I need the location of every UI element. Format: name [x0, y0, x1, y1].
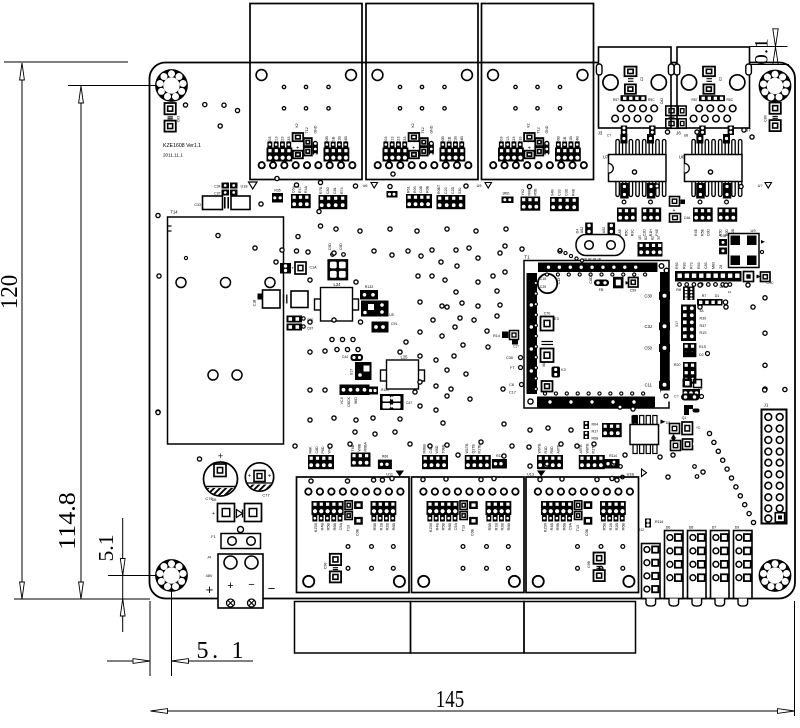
svg-text:D8: D8 — [689, 526, 694, 530]
svg-text:KZE1608 Ver1.1: KZE1608 Ver1.1 — [163, 143, 201, 149]
capacitor C29 inside QFP — [538, 274, 557, 293]
svg-text:R03: R03 — [413, 186, 417, 193]
capacitor C9B — [587, 553, 605, 582]
svg-text:R6B: R6B — [507, 523, 511, 531]
IC U5 — [361, 301, 389, 317]
svg-text:R14: R14 — [493, 334, 500, 338]
svg-text:R132: R132 — [365, 285, 374, 289]
svg-text:C9A: C9A — [339, 523, 343, 531]
svg-text:T13: T13 — [462, 525, 466, 531]
cluster group F — [579, 455, 605, 469]
svg-text:R5B: R5B — [442, 523, 446, 531]
resistor network R5 tall — [681, 305, 696, 342]
dimension 120 extension line top — [4, 61, 128, 63]
via diagonal chain bottom right — [707, 431, 755, 524]
dimension 5.1 horizontal line left — [107, 660, 150, 662]
svg-text:K2: K2 — [295, 123, 299, 127]
cluster near R61 — [521, 197, 541, 211]
svg-text:+: + — [268, 474, 272, 480]
svg-text:FB: FB — [599, 288, 604, 292]
RJ45 connector bottom block 3 — [526, 477, 639, 593]
resistor network R16 — [638, 242, 663, 257]
svg-text:R114: R114 — [609, 454, 617, 458]
D4 pad pair left — [585, 223, 593, 235]
resistor R114 — [605, 459, 620, 469]
svg-text:C37: C37 — [214, 192, 220, 196]
svg-text:P4E: P4E — [655, 228, 659, 235]
QFP corner pad bottom-left — [528, 399, 533, 404]
dimension 5.1 horizontal extension line board edge — [149, 601, 151, 676]
capacitor C44 — [351, 354, 364, 361]
svg-text:R93: R93 — [675, 262, 679, 269]
dimension 5.1 horizontal extension line hole center — [171, 576, 173, 677]
svg-text:C33: C33 — [194, 203, 201, 207]
svg-text:S4B: S4B — [551, 189, 555, 196]
svg-text:R0BA: R0BA — [364, 442, 368, 452]
svg-text:J3: J3 — [598, 131, 603, 136]
svg-text:+C: +C — [696, 426, 701, 430]
svg-text:R4B: R4B — [435, 523, 439, 531]
svg-text:C50: C50 — [644, 345, 652, 350]
cluster C6a R47 — [291, 194, 311, 208]
svg-text:R57: R57 — [691, 98, 697, 102]
svg-text:R63: R63 — [697, 262, 701, 269]
capacitor group bottom right of QFP — [672, 419, 675, 422]
resistor R61 pads — [502, 197, 514, 204]
QFP right pads C30 C3J C50 C11 — [644, 292, 670, 300]
svg-text:KZ00: KZ00 — [429, 523, 433, 532]
svg-text:GND: GND — [545, 125, 549, 133]
svg-text:R6B: R6B — [621, 523, 625, 531]
svg-text:R5B: R5B — [488, 523, 492, 531]
svg-text:U6: U6 — [363, 184, 368, 188]
svg-text:C4B: C4B — [720, 234, 726, 238]
svg-text:C44: C44 — [342, 355, 348, 359]
RJ45 connector J2 (top block 1) — [250, 4, 362, 180]
svg-text:C83: C83 — [704, 262, 708, 269]
svg-text:C23: C23 — [444, 187, 448, 194]
svg-text:2R 3R 1R 1R: 2R 3R 1R 1R — [583, 257, 602, 261]
svg-text:C11: C11 — [645, 382, 653, 387]
svg-text:C0B: C0B — [471, 528, 475, 536]
dimension 0.1 arrow upper — [773, 29, 778, 47]
svg-text:C?: C? — [674, 395, 678, 399]
svg-text:R20: R20 — [674, 363, 681, 367]
resistor labels R04 R17 R56 — [584, 421, 590, 429]
svg-text:C80: C80 — [764, 115, 768, 121]
svg-text:L25: L25 — [401, 355, 409, 360]
PCB board outline — [150, 63, 796, 599]
dimension 0.1 arrow lower — [773, 47, 778, 65]
cluster group D — [465, 455, 491, 469]
cluster group B — [351, 453, 371, 467]
QFP corner pad top-right — [659, 264, 664, 269]
svg-text:R5C: R5C — [624, 229, 628, 237]
svg-text:U7: U7 — [603, 155, 609, 160]
port mounting slot 2 — [668, 64, 674, 75]
port mounting slot 1 — [596, 64, 602, 75]
svg-text:R7B: R7B — [319, 186, 323, 194]
svg-text:C6a: C6a — [292, 186, 296, 193]
cluster group E — [537, 455, 563, 469]
capacitor C4A pads — [670, 197, 680, 207]
connector tab 4 — [715, 599, 725, 607]
resistor cluster below U6 right — [718, 208, 738, 222]
svg-text:M83: M83 — [712, 262, 716, 269]
svg-text:W1TB: W1TB — [465, 443, 469, 454]
svg-text:R61: R61 — [407, 186, 411, 193]
svg-text:R2B: R2B — [386, 523, 390, 531]
svg-text:C30: C30 — [506, 356, 513, 360]
svg-text:C1B: C1B — [253, 299, 257, 306]
svg-text:Q1TB: Q1TB — [471, 444, 475, 454]
svg-text:KZ00: KZ00 — [544, 523, 548, 532]
dimension 5.1 horizontal arrow right — [172, 659, 189, 664]
svg-text:R1B: R1B — [494, 523, 498, 531]
svg-text:U6: U6 — [679, 155, 685, 160]
QFP corner pad bottom-right white square — [661, 391, 671, 402]
svg-text:R0B: R0B — [425, 185, 429, 193]
svg-text:C2: C2 — [719, 77, 723, 81]
svg-text:C0B: C0B — [356, 528, 360, 536]
svg-text:R58: R58 — [592, 437, 599, 441]
svg-text:C15: C15 — [540, 277, 546, 281]
resistor R132 — [360, 290, 378, 300]
capacitor C5 capsule — [681, 394, 700, 401]
T14 hole 2 — [221, 278, 231, 288]
svg-text:1R61: 1R61 — [502, 192, 510, 196]
svg-text:W6TB: W6TB — [538, 443, 542, 454]
svg-text:C7: C7 — [607, 134, 611, 138]
svg-text:T12: T12 — [305, 127, 309, 133]
svg-text:U18: U18 — [241, 185, 248, 189]
svg-text:1G: 1G — [638, 235, 642, 240]
svg-text:C5D: C5D — [328, 243, 332, 250]
svg-text:R5C: R5C — [648, 98, 655, 102]
svg-text:R06: R06 — [527, 189, 531, 196]
svg-text:R4B: R4B — [320, 523, 324, 531]
svg-text:R4A: R4A — [304, 185, 308, 193]
capacitor C4x cluster — [380, 394, 404, 410]
QFP pin bar top — [538, 263, 658, 273]
svg-text:R4B: R4B — [572, 188, 576, 196]
capacitor C80 pads — [764, 103, 781, 132]
diode header D6 — [665, 531, 684, 599]
svg-text:R6B: R6B — [333, 523, 337, 531]
QFP pin bar bottom — [537, 397, 655, 408]
svg-text:C47: C47 — [406, 401, 412, 405]
svg-text:+: + — [248, 474, 252, 480]
IC U7 (SOIC16) — [603, 134, 666, 204]
dimension 114.8 extension line — [68, 85, 166, 87]
D4 hole 1 — [585, 241, 594, 250]
QFP via row top — [545, 273, 646, 276]
svg-text:C17: C17 — [509, 391, 516, 395]
cluster C16 — [602, 423, 622, 437]
mounting hole top-right — [759, 70, 792, 103]
mounting hole top-left — [155, 69, 188, 102]
resistor row R7 D1 — [697, 299, 723, 306]
pad at header right end — [744, 272, 754, 282]
D4 hole 2 — [607, 241, 616, 250]
svg-text:A52: A52 — [580, 227, 584, 233]
resistor R119 — [492, 459, 507, 469]
svg-text:R120: R120 — [381, 388, 389, 392]
svg-text:R74: R74 — [340, 187, 344, 194]
T14 hole 3 — [265, 278, 275, 288]
svg-text:R0BB: R0BB — [423, 444, 427, 454]
svg-text:C91: C91 — [391, 322, 397, 326]
T14 hole 1 — [176, 278, 186, 288]
RJ45 connector bottom block 1 — [297, 477, 410, 593]
svg-text:R37: R37 — [700, 324, 707, 328]
svg-text:C0B: C0B — [419, 185, 423, 193]
svg-text:KZ00: KZ00 — [314, 523, 318, 532]
svg-text:R73: R73 — [690, 262, 694, 269]
dimension 120 arrow top — [20, 63, 25, 80]
connector tab 3 — [692, 599, 702, 607]
svg-text:CBCK: CBCK — [347, 396, 351, 407]
dimension 114.8 arrow top — [79, 86, 84, 103]
cluster R110 group A — [308, 455, 334, 469]
svg-text:F7: F7 — [510, 366, 514, 370]
svg-text:R1B: R1B — [379, 523, 383, 531]
bottom connector shroud 2 — [411, 602, 525, 654]
svg-text:145: 145 — [436, 687, 465, 713]
inductor L25 — [381, 370, 388, 381]
capacitor C1B — [258, 294, 264, 300]
ferrite bead FB — [594, 280, 609, 287]
svg-text:Y02: Y02 — [521, 189, 525, 195]
svg-text:R1S: R1S — [700, 331, 708, 335]
pads K3 inside QFP — [552, 367, 561, 378]
svg-text:C9A: C9A — [569, 523, 573, 531]
svg-text:D7: D7 — [712, 526, 717, 530]
svg-text:R5B: R5B — [327, 523, 331, 531]
capacitor C50 cluster — [327, 259, 348, 280]
resistor cluster below U6 left — [693, 208, 713, 222]
svg-text:S30: S30 — [458, 188, 462, 194]
svg-text:T12: T12 — [537, 127, 541, 133]
capacitor C91 — [372, 322, 389, 333]
svg-text:R7: R7 — [702, 294, 707, 298]
svg-text:R3C: R3C — [631, 229, 635, 237]
capacitor C34 pads — [222, 183, 230, 189]
svg-text:T14: T14 — [170, 210, 178, 215]
dimension 0.1 extension line lower — [750, 64, 790, 66]
dimension 0.1 extension line — [750, 46, 788, 48]
IC U10 (SOIC8) — [633, 416, 637, 425]
svg-text:+: + — [227, 580, 233, 592]
svg-text:2011.11.1: 2011.11.1 — [163, 153, 183, 158]
IC T1 (QFP) outline — [524, 261, 669, 409]
svg-text:C83: C83 — [177, 116, 181, 122]
svg-text:R1H: R1H — [649, 229, 653, 237]
svg-text:R6B: R6B — [448, 523, 452, 531]
resistor R1B cluster — [683, 343, 696, 357]
RJ45 connector J5 (top block 2) — [366, 4, 478, 180]
RJ45 connector bottom block 2 — [412, 477, 525, 593]
svg-text:C13: C13 — [557, 278, 561, 285]
svg-text:R1S: R1S — [699, 345, 707, 349]
svg-text:K3: K3 — [561, 368, 565, 372]
diode header D7 — [711, 531, 730, 599]
svg-text:120: 120 — [0, 275, 23, 310]
svg-text:R8K: R8K — [309, 446, 313, 454]
svg-text:R35: R35 — [274, 189, 280, 193]
svg-text:U?: U? — [758, 184, 763, 188]
svg-text:GND: GND — [314, 125, 318, 133]
svg-text:R5B: R5B — [373, 523, 377, 531]
svg-text:D2: D2 — [666, 421, 671, 425]
capacitor C9C pad — [761, 272, 771, 282]
crystal U9 outline — [729, 234, 760, 268]
mounting hole bottom-left — [155, 559, 188, 592]
svg-text:A52: A52 — [602, 227, 606, 233]
svg-text:K2: K2 — [411, 123, 415, 127]
svg-text:U13: U13 — [527, 473, 534, 477]
dimension 5.1 vertical line — [122, 518, 124, 632]
capacitor C77 — [245, 463, 273, 491]
svg-text:J6: J6 — [676, 131, 681, 136]
dimension 114.8 arrow bottom — [79, 582, 84, 599]
capacitor pads between ports right — [678, 106, 686, 116]
svg-text:R5B: R5B — [603, 523, 607, 531]
bottom connector shroud 1 — [295, 602, 411, 654]
diode D3 cluster — [683, 379, 693, 388]
svg-text:C9A: C9A — [454, 523, 458, 531]
dimension 145 arrow left — [151, 709, 168, 714]
svg-text:U5: U5 — [389, 313, 394, 317]
pad square inside QFP — [542, 381, 553, 392]
T14 hole 4 — [208, 370, 218, 380]
svg-text:C8D: C8D — [315, 446, 319, 454]
svg-text:C2: C2 — [640, 77, 644, 81]
T14 edge ticks — [168, 225, 172, 227]
connector tab 5 — [738, 599, 748, 607]
svg-text:R6B: R6B — [392, 523, 396, 531]
capacitor C98 — [323, 554, 341, 583]
IC U17 — [355, 362, 372, 380]
svg-text:32: 32 — [657, 236, 661, 240]
port mounting slot 3 — [674, 64, 680, 75]
svg-text:T13: T13 — [347, 525, 351, 531]
svg-text:C81: C81 — [333, 187, 337, 194]
D4 pad pair right — [608, 223, 616, 235]
svg-text:R47: R47 — [298, 186, 302, 193]
svg-text:R5E: R5E — [700, 228, 704, 236]
svg-text:W8B: W8B — [357, 443, 361, 451]
transformer T14 outline — [168, 217, 284, 444]
svg-text:U9: U9 — [750, 228, 756, 233]
dimension 5.1 vertical extension line — [108, 575, 172, 577]
svg-text:R83: R83 — [682, 262, 686, 269]
dimension 145 extension line right — [794, 601, 796, 716]
svg-text:C29: C29 — [540, 285, 546, 289]
svg-text:R04: R04 — [592, 423, 599, 427]
cluster R6 group — [406, 194, 432, 208]
svg-text:+: + — [291, 266, 294, 271]
svg-text:C9B: C9B — [587, 560, 591, 567]
svg-text:C3J: C3J — [645, 324, 652, 329]
svg-text:R1D: R1D — [544, 446, 548, 454]
via near C83 — [183, 103, 187, 107]
svg-text:C1A: C1A — [310, 266, 318, 270]
capacitor C90 C87 — [287, 316, 303, 323]
dimension 5.1 vertical arrow upper — [120, 559, 125, 576]
svg-text:C70: C70 — [544, 312, 551, 316]
svg-text:J4: J4 — [207, 556, 211, 560]
resistor cluster below U7 left — [617, 208, 637, 222]
svg-text:C34: C34 — [214, 185, 220, 189]
capacitor C4B pads — [719, 239, 727, 246]
svg-text:5.1: 5.1 — [94, 535, 118, 562]
dimension 5.1 horizontal line right — [172, 660, 254, 662]
arrow D2 marker — [661, 420, 666, 424]
resistor network R8 — [683, 287, 695, 301]
svg-text:C33: C33 — [558, 189, 562, 196]
resistor R120 — [368, 387, 379, 395]
dimension 145 arrow right — [778, 709, 795, 714]
svg-text:C77: C77 — [262, 493, 270, 498]
svg-text:81: 81 — [644, 236, 648, 240]
svg-text:C1?: C1? — [513, 345, 519, 349]
svg-text:114.8: 114.8 — [55, 492, 81, 550]
svg-text:T12: T12 — [421, 127, 425, 133]
QFP pin bar left — [527, 273, 538, 394]
bottom edge extension line left — [14, 598, 150, 600]
svg-text:+: + — [206, 582, 214, 597]
crystal U9 corner pads — [731, 236, 741, 246]
svg-text:D4: D4 — [576, 229, 580, 234]
mounting hole bottom-right — [759, 559, 792, 592]
svg-text:M2: M2 — [542, 362, 546, 367]
resistor bar R1xx — [340, 385, 370, 396]
svg-text:C9C: C9C — [766, 281, 774, 285]
svg-text:48V: 48V — [206, 574, 213, 578]
inductor L24 — [315, 299, 322, 310]
transformer D4 outline — [576, 235, 625, 256]
svg-text:R6B: R6B — [562, 523, 566, 531]
capacitor C60 pad — [629, 278, 639, 288]
QFP pin bar right — [660, 272, 670, 393]
svg-text:K2: K2 — [527, 123, 531, 127]
svg-text:C2D: C2D — [643, 229, 647, 237]
svg-text:J1: J1 — [764, 403, 769, 408]
svg-text:U9: U9 — [477, 184, 482, 188]
cluster 2x4 mid top — [550, 197, 579, 211]
svg-text:T13: T13 — [576, 525, 580, 531]
pin header J1 — [762, 410, 787, 524]
svg-text:P8D: P8D — [321, 446, 325, 453]
via chain near QFP top — [558, 248, 583, 262]
svg-text:−: − — [268, 581, 276, 596]
svg-text:R8: R8 — [676, 288, 681, 292]
cluster group C — [422, 455, 448, 469]
svg-text:R5B: R5B — [534, 188, 538, 196]
svg-text:C0D: C0D — [707, 229, 711, 237]
connector J6 port — [677, 47, 750, 135]
resistor network R20 — [683, 362, 696, 376]
svg-text:R5C: R5C — [727, 98, 734, 102]
svg-text:D1: D1 — [715, 294, 720, 298]
svg-text:9KD: 9KD — [354, 397, 358, 404]
svg-text:R0BT: R0BT — [437, 184, 441, 194]
svg-text:C2D: C2D — [451, 186, 455, 194]
resistor R116 pads — [645, 519, 651, 528]
svg-text:R5B: R5B — [556, 523, 560, 531]
svg-text:C30: C30 — [644, 293, 652, 298]
